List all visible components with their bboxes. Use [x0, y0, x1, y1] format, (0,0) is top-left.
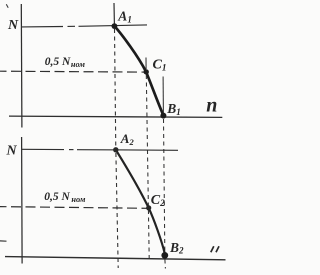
- N-axis (top plot vertical axis): [20, 4, 23, 128]
- point B1: [160, 113, 166, 119]
- N-level line (bottom, axis through A2): [22, 149, 178, 150]
- dashed vertical A1 to A2: [115, 29, 116, 150]
- N-level line (top, axis to A1 and beyond): [22, 25, 147, 27]
- dashed vertical B1 to B2: [164, 119, 165, 251]
- vertical stub above C1: [145, 58, 147, 70]
- point B2: [161, 252, 168, 259]
- dashed vertical below B2: [164, 260, 167, 269]
- dashed vertical below A2: [116, 153, 118, 268]
- svg-text:n: n: [206, 95, 217, 117]
- vertical stub above B1: [162, 77, 164, 115]
- dashed vertical C1 to below C2: [146, 75, 149, 259]
- n-axis (bottom plot horizontal axis): [5, 257, 226, 260]
- vertical line above A1: [113, 3, 115, 27]
- n-axis (top plot horizontal axis): [9, 116, 222, 117]
- point C2: [146, 205, 151, 210]
- point A2: [113, 147, 118, 152]
- N-axis (bottom plot vertical axis): [21, 137, 24, 264]
- point A1: [112, 23, 118, 29]
- n label (bottom, two slashes): [211, 246, 219, 252]
- tick top-left: [6, 4, 8, 8]
- paper background: [0, 0, 229, 275]
- point C1: [144, 69, 149, 74]
- svg-text:N: N: [6, 144, 18, 159]
- svg-text:N: N: [7, 18, 19, 33]
- 0,5N dashed level line (bottom): [0, 207, 149, 209]
- tick left edge: [0, 240, 7, 242]
- 0,5N dashed level line (top): [0, 70, 146, 73]
- curve 2 (A2-C2-B2): [116, 150, 165, 254]
- curve 1 (A1-C1-B1): [114, 26, 163, 115]
